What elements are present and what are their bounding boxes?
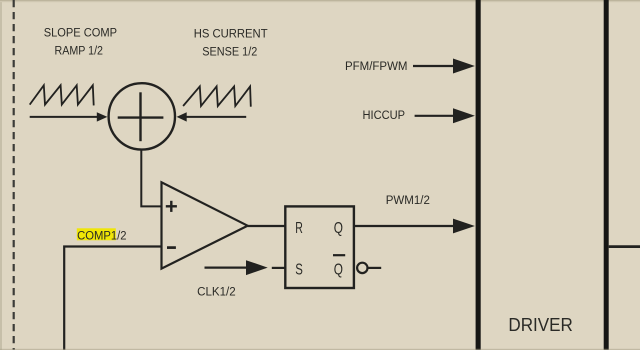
svg-text:PFM/FPWM: PFM/FPWM (345, 59, 408, 73)
comparator - symbol (167, 246, 176, 249)
wire summer to comparator + input (141, 149, 161, 206)
svg-text:SLOPE COMP: SLOPE COMP (44, 26, 117, 40)
wire slope ramp to summer (30, 116, 98, 118)
wire from bubble (368, 267, 382, 269)
COMP1/2 highlight (77, 228, 116, 240)
wire CLK1/2 (205, 267, 249, 269)
wire sense ramp to summer (186, 116, 246, 118)
arrowhead PFM into driver (453, 59, 475, 74)
svg-text:HS CURRENT: HS CURRENT (194, 26, 268, 40)
svg-text:DRIVER: DRIVER (508, 315, 573, 335)
svg-text:RAMP 1/2: RAMP 1/2 (55, 44, 104, 58)
wire stub to S pin (272, 267, 286, 269)
driver block right wall (604, 0, 609, 350)
svg-text:COMP1/2: COMP1/2 (77, 228, 126, 242)
svg-text:Q: Q (334, 261, 343, 278)
top edge shade (0, 0, 640, 1)
wire COMP1/2 to comparator - input (64, 247, 161, 350)
summing junction (109, 83, 175, 149)
Q-bar inversion bubble (357, 263, 367, 273)
arrowhead into summer (right) (177, 112, 187, 121)
comparator + symbol (170, 201, 172, 212)
bottom edge shade (0, 349, 640, 350)
svg-text:SENSE 1/2: SENSE 1/2 (202, 44, 257, 58)
arrowhead into summer (left) (97, 112, 108, 121)
SR latch U2 (285, 206, 354, 288)
arrowhead CLK into S (246, 260, 268, 275)
svg-text:R: R (295, 220, 303, 237)
svg-text:CLK1/2: CLK1/2 (197, 285, 236, 299)
dashed boundary line (13, 0, 15, 350)
wire HICCUP to driver (415, 115, 454, 117)
svg-text:PWM1/2: PWM1/2 (386, 193, 430, 207)
driver block left wall (476, 0, 481, 350)
hs current sense ramp waveform (183, 86, 251, 106)
wire comparator out to R (248, 225, 286, 227)
svg-text:Q: Q (334, 220, 343, 237)
svg-text:HICCUP: HICCUP (363, 108, 406, 122)
summing junction plus sign (139, 92, 141, 141)
svg-text:S: S (295, 261, 303, 278)
comparator U1 (162, 182, 248, 268)
wire PFM/FPWM to driver (413, 65, 454, 67)
arrowhead HICCUP into driver (453, 108, 475, 123)
arrowhead PWM into driver (453, 219, 475, 234)
right block boundary wire (609, 245, 640, 248)
Q-bar overline (333, 254, 345, 256)
wire PWM1/2 to driver (354, 225, 454, 227)
left page edge (0, 0, 2, 350)
slope comp ramp waveform (30, 85, 94, 105)
